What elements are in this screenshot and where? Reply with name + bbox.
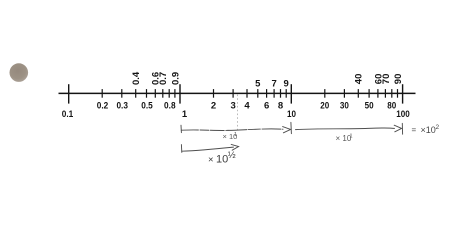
- svg-text:1: 1: [182, 109, 188, 120]
- svg-text:2: 2: [436, 124, 440, 131]
- svg-text:3: 3: [230, 101, 235, 112]
- svg-text:70: 70: [381, 74, 392, 85]
- svg-text:20: 20: [320, 101, 329, 112]
- svg-text:×: ×: [208, 155, 214, 166]
- svg-text:8: 8: [278, 101, 283, 112]
- svg-text:=: =: [412, 126, 417, 135]
- svg-text:0.1: 0.1: [62, 109, 74, 120]
- svg-text:9: 9: [284, 79, 289, 90]
- svg-text:0.3: 0.3: [116, 101, 128, 112]
- svg-text:0.9: 0.9: [170, 72, 181, 85]
- svg-text:4: 4: [244, 101, 250, 112]
- svg-text:0.8: 0.8: [164, 101, 176, 112]
- svg-text:1: 1: [234, 132, 237, 138]
- svg-text:0.7: 0.7: [158, 72, 169, 85]
- svg-text:40: 40: [354, 74, 365, 85]
- svg-text:½: ½: [228, 150, 236, 161]
- svg-text:10: 10: [287, 109, 296, 120]
- svg-text:10: 10: [216, 154, 228, 166]
- svg-text:0.5: 0.5: [141, 101, 153, 112]
- svg-text:×10: ×10: [421, 125, 436, 135]
- svg-text:90: 90: [393, 74, 404, 85]
- svg-text:7: 7: [271, 79, 276, 90]
- svg-text:30: 30: [340, 101, 349, 112]
- svg-text:5: 5: [255, 79, 261, 90]
- svg-text:50: 50: [365, 101, 374, 112]
- svg-text:80: 80: [387, 101, 396, 112]
- svg-text:2: 2: [211, 101, 216, 112]
- svg-text:0.2: 0.2: [97, 101, 109, 112]
- svg-text:0.4: 0.4: [131, 71, 142, 85]
- svg-text:6: 6: [264, 101, 269, 112]
- svg-text:1: 1: [350, 134, 353, 140]
- svg-text:100: 100: [396, 109, 410, 120]
